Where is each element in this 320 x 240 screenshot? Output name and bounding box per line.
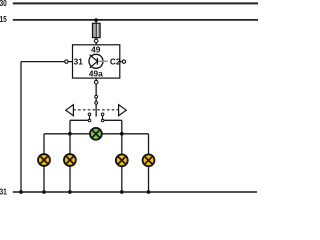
svg-text:15: 15	[0, 14, 7, 24]
svg-text:30: 30	[0, 0, 7, 8]
svg-text:49a: 49a	[89, 69, 103, 79]
svg-text:31: 31	[0, 187, 7, 196]
svg-text:C2: C2	[110, 56, 121, 66]
svg-text:31: 31	[74, 56, 84, 66]
svg-text:49: 49	[91, 44, 101, 54]
